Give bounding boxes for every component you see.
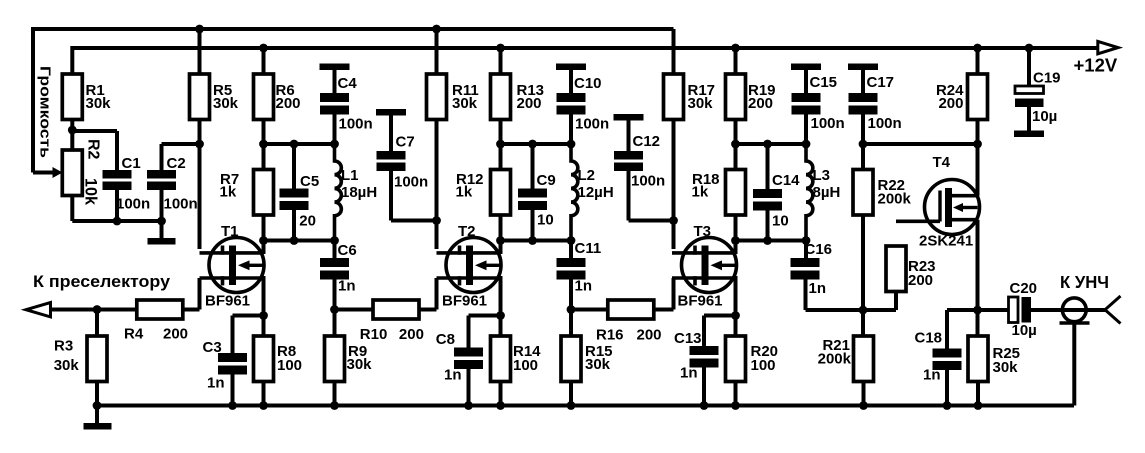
svg-text:30k: 30k: [54, 357, 80, 374]
svg-text:200: 200: [637, 327, 662, 344]
svg-text:C17: C17: [867, 74, 895, 91]
svg-text:100n: 100n: [811, 115, 845, 132]
svg-text:C2: C2: [167, 155, 186, 172]
svg-text:R3: R3: [54, 338, 73, 355]
svg-text:T2: T2: [458, 223, 476, 240]
svg-text:L2: L2: [578, 167, 596, 184]
svg-text:T4: T4: [933, 154, 951, 171]
svg-text:L1: L1: [341, 167, 359, 184]
svg-text:10k: 10k: [82, 178, 100, 206]
svg-text:100n: 100n: [868, 115, 902, 132]
svg-text:C4: C4: [338, 75, 358, 92]
svg-text:C9: C9: [537, 172, 556, 189]
svg-text:C8: C8: [436, 331, 455, 348]
svg-text:100n: 100n: [575, 116, 609, 133]
svg-text:30k: 30k: [452, 95, 478, 112]
svg-text:2SK241: 2SK241: [919, 233, 973, 250]
svg-text:C20: C20: [1010, 280, 1038, 297]
svg-text:C19: C19: [1033, 70, 1061, 87]
svg-text:200: 200: [748, 95, 773, 112]
svg-text:20: 20: [299, 213, 316, 230]
svg-text:C11: C11: [575, 240, 602, 257]
svg-text:100: 100: [513, 357, 538, 374]
svg-text:200: 200: [399, 326, 424, 343]
svg-text:T1: T1: [221, 223, 239, 240]
svg-text:200k: 200k: [818, 351, 852, 368]
svg-text:12µH: 12µH: [578, 184, 614, 201]
svg-text:T3: T3: [694, 223, 712, 240]
svg-text:BF961: BF961: [678, 293, 723, 310]
svg-text:C14: C14: [772, 172, 800, 189]
svg-text:100: 100: [277, 357, 302, 374]
svg-text:R10: R10: [360, 326, 388, 343]
svg-text:L3: L3: [813, 167, 831, 184]
svg-text:1k: 1k: [456, 184, 473, 201]
svg-text:C5: C5: [300, 173, 319, 190]
svg-text:R2: R2: [85, 139, 102, 160]
svg-text:8µH: 8µH: [813, 184, 841, 201]
svg-text:100n: 100n: [164, 196, 198, 213]
svg-text:100n: 100n: [116, 196, 150, 213]
svg-text:30k: 30k: [213, 95, 239, 112]
svg-text:BF961: BF961: [442, 293, 487, 310]
svg-text:1n: 1n: [444, 367, 462, 384]
svg-text:30k: 30k: [585, 356, 611, 373]
svg-text:200: 200: [938, 95, 963, 112]
svg-text:200: 200: [163, 326, 188, 343]
svg-text:200k: 200k: [878, 191, 912, 208]
svg-text:100n: 100n: [394, 174, 428, 191]
svg-text:1n: 1n: [207, 375, 225, 392]
svg-text:30k: 30k: [347, 356, 373, 373]
svg-text:C7: C7: [396, 134, 415, 151]
svg-text:10: 10: [537, 212, 554, 229]
svg-text:1k: 1k: [692, 184, 709, 201]
svg-text:100n: 100n: [631, 173, 665, 190]
svg-text:C1: C1: [122, 155, 141, 172]
svg-text:C3: C3: [203, 339, 222, 356]
svg-text:К преселектору: К преселектору: [33, 273, 171, 291]
svg-text:C6: C6: [338, 242, 357, 259]
svg-text:C16: C16: [805, 241, 833, 258]
svg-text:10µ: 10µ: [1012, 322, 1037, 339]
svg-text:200: 200: [517, 95, 542, 112]
svg-text:1n: 1n: [809, 280, 827, 297]
svg-text:Громкость: Громкость: [37, 66, 54, 158]
svg-text:100n: 100n: [339, 116, 373, 133]
svg-text:C13: C13: [674, 330, 702, 347]
svg-text:1n: 1n: [338, 278, 356, 295]
svg-text:100: 100: [751, 357, 776, 374]
svg-text:1k: 1k: [220, 184, 237, 201]
svg-text:C10: C10: [574, 75, 602, 92]
svg-text:30k: 30k: [86, 95, 112, 112]
svg-text:30k: 30k: [688, 95, 714, 112]
svg-text:+12V: +12V: [1074, 55, 1118, 76]
svg-text:1n: 1n: [680, 365, 698, 382]
svg-text:200: 200: [276, 95, 301, 112]
svg-text:10µ: 10µ: [1032, 108, 1057, 125]
svg-text:К УНЧ: К УНЧ: [1060, 272, 1109, 292]
svg-text:C15: C15: [810, 74, 838, 91]
svg-text:R16: R16: [596, 327, 624, 344]
svg-text:C12: C12: [633, 133, 661, 150]
svg-text:BF961: BF961: [205, 293, 250, 310]
svg-text:30k: 30k: [993, 359, 1019, 376]
svg-text:10: 10: [772, 213, 789, 230]
svg-text:C18: C18: [915, 330, 943, 347]
svg-text:R4: R4: [124, 326, 144, 343]
svg-text:1n: 1n: [575, 278, 593, 295]
svg-text:200: 200: [908, 272, 933, 289]
svg-text:18µH: 18µH: [341, 184, 377, 201]
svg-text:1n: 1n: [923, 367, 941, 384]
